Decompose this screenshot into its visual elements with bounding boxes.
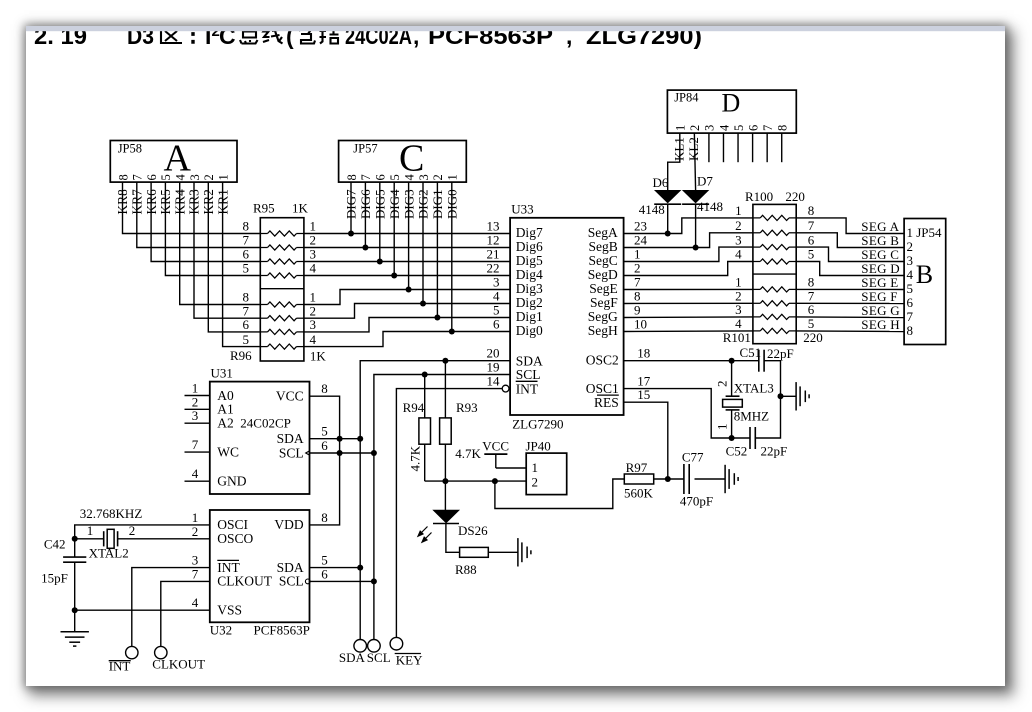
wire VSS to ground bbox=[74, 610, 76, 632]
terminal INT circle bbox=[126, 646, 138, 658]
wire SegD to R100 bbox=[624, 262, 753, 276]
wire U33 INT to KEY terminal bbox=[396, 389, 502, 638]
svg-text:4: 4 bbox=[735, 316, 742, 331]
JP57 net labels DIG7..DIG0 bbox=[344, 189, 460, 219]
svg-text:1: 1 bbox=[735, 275, 742, 290]
svg-text:4.7K: 4.7K bbox=[455, 446, 481, 461]
svg-text:1K: 1K bbox=[292, 201, 309, 216]
resistor R100 element 1 bbox=[735, 203, 814, 220]
IC U31 24C02CP body bbox=[210, 366, 310, 495]
svg-text:A0: A0 bbox=[217, 388, 234, 403]
terminal SDA circle bbox=[354, 640, 367, 653]
junction DIG7 bbox=[348, 231, 354, 237]
svg-text:SCL: SCL bbox=[516, 367, 541, 382]
junction ground tap bbox=[778, 393, 784, 399]
svg-text:32.768KHZ: 32.768KHZ bbox=[80, 506, 143, 521]
wire Dig1 net bbox=[304, 318, 510, 332]
svg-text:SegB: SegB bbox=[589, 239, 618, 254]
svg-text:R100: R100 bbox=[745, 189, 773, 204]
svg-text:Dig5: Dig5 bbox=[516, 253, 543, 268]
JP58 pin numbers 8..1 bbox=[116, 174, 230, 181]
svg-text:U32: U32 bbox=[210, 622, 232, 637]
svg-text:220: 220 bbox=[785, 189, 805, 204]
junction OSC1-XTAL3 bbox=[729, 435, 735, 441]
svg-text:RES: RES bbox=[594, 395, 619, 410]
wire to ground right bbox=[781, 395, 797, 397]
svg-text:SCL: SCL bbox=[367, 650, 391, 665]
wire KR4 bbox=[180, 182, 261, 304]
svg-text:5: 5 bbox=[493, 303, 500, 318]
svg-text:7: 7 bbox=[634, 275, 641, 290]
svg-text:2: 2 bbox=[907, 239, 914, 254]
JP84 pin numbers 1..8 bbox=[674, 124, 790, 131]
svg-text:1: 1 bbox=[735, 203, 742, 218]
resistor R100 element 3 bbox=[735, 232, 815, 249]
svg-text:14: 14 bbox=[487, 374, 501, 389]
svg-text:SegF: SegF bbox=[590, 295, 618, 310]
svg-text:1: 1 bbox=[87, 523, 94, 538]
wire D6 to SegA net bbox=[667, 204, 669, 234]
svg-text:8: 8 bbox=[634, 289, 641, 304]
wire Dig5 net bbox=[304, 261, 510, 263]
svg-text:8: 8 bbox=[321, 510, 328, 525]
svg-text:A1: A1 bbox=[217, 402, 234, 417]
svg-text:5: 5 bbox=[388, 174, 402, 180]
svg-text:7: 7 bbox=[907, 309, 914, 324]
U33 right pin numbers bbox=[634, 219, 651, 403]
title text 2.19 D3 I2C bus bbox=[34, 23, 702, 49]
ground at C42 bbox=[61, 632, 89, 646]
capacitor C51 22pF bbox=[740, 345, 794, 372]
svg-text:U31: U31 bbox=[211, 366, 233, 381]
junction OSC2-XTAL3 bbox=[729, 358, 735, 364]
resistor network R95/R96 box bbox=[230, 201, 326, 364]
svg-text:2: 2 bbox=[735, 218, 742, 233]
svg-text:1: 1 bbox=[310, 219, 317, 234]
junction node-R97 branch bbox=[492, 478, 498, 484]
svg-text:SegA: SegA bbox=[588, 225, 618, 240]
junction U32 SCL bus bbox=[371, 578, 377, 584]
svg-text:22pF: 22pF bbox=[761, 443, 788, 458]
junction DIG2 bbox=[420, 301, 426, 307]
svg-text:12: 12 bbox=[487, 233, 500, 248]
svg-text:4: 4 bbox=[192, 466, 199, 481]
page top edge strip bbox=[26, 26, 1005, 31]
svg-text:VCC: VCC bbox=[276, 389, 304, 404]
svg-text:5: 5 bbox=[907, 281, 914, 296]
wire R100 to SEGA JP54 bbox=[796, 218, 904, 234]
svg-text:D7: D7 bbox=[697, 174, 713, 189]
svg-text:4: 4 bbox=[192, 595, 199, 610]
svg-text:7: 7 bbox=[192, 566, 199, 581]
svg-text:5: 5 bbox=[808, 316, 815, 331]
wire R101 to SEGF JP54 bbox=[796, 302, 904, 304]
JP84 pin stub wires bbox=[709, 133, 782, 162]
wire U32 SDA bbox=[310, 567, 361, 569]
svg-text:OSCI: OSCI bbox=[217, 517, 248, 532]
wire U33 RES to R97 node bbox=[624, 402, 668, 479]
svg-text:10: 10 bbox=[634, 317, 647, 332]
svg-text:6: 6 bbox=[808, 302, 815, 317]
svg-text:6: 6 bbox=[808, 232, 815, 247]
diode D7 4148 bbox=[682, 174, 723, 215]
svg-text:8: 8 bbox=[907, 323, 914, 338]
svg-text:4: 4 bbox=[717, 124, 731, 131]
capacitor C77 470pF bbox=[680, 450, 713, 509]
crystal XTAL3 8MHZ bbox=[715, 361, 774, 438]
svg-text:9: 9 bbox=[634, 303, 641, 318]
svg-text:5: 5 bbox=[243, 332, 250, 347]
crystal XTAL2 32.768KHZ bbox=[75, 506, 210, 561]
title CJK glyphs (drawn) bbox=[161, 27, 339, 44]
resistor R101 element 3 bbox=[735, 302, 815, 319]
svg-text:D6: D6 bbox=[653, 175, 669, 190]
ground at XTAL3 bbox=[796, 382, 809, 410]
svg-text:SDA: SDA bbox=[277, 560, 304, 575]
wire DIG5 bbox=[379, 182, 381, 261]
label INT bbox=[109, 659, 131, 674]
svg-text:3: 3 bbox=[192, 408, 199, 423]
svg-text:6: 6 bbox=[321, 438, 328, 453]
svg-text:B: B bbox=[916, 260, 933, 289]
wire R101 to SEGH JP54 bbox=[796, 330, 904, 333]
IC U33 ZLG7290 body bbox=[510, 202, 623, 432]
svg-text:6: 6 bbox=[746, 125, 760, 131]
wire R101 to SEGE JP54 bbox=[796, 288, 904, 290]
svg-text:4: 4 bbox=[907, 267, 914, 282]
JP58 net labels KR8..KR1 bbox=[115, 189, 230, 215]
svg-text:A2: A2 bbox=[217, 416, 234, 431]
IC U32 PCF8563P body bbox=[210, 510, 310, 637]
wire Dig4 net bbox=[304, 275, 510, 277]
connector JP58 (A) bbox=[110, 138, 237, 183]
svg-text:SEG G: SEG G bbox=[861, 303, 900, 318]
junction DIG3 bbox=[406, 287, 412, 293]
svg-text:SegD: SegD bbox=[588, 267, 618, 282]
resistor R95 element 2 bbox=[243, 233, 317, 250]
svg-text:3: 3 bbox=[192, 553, 199, 568]
svg-text:D: D bbox=[722, 89, 741, 118]
junction DIG0 bbox=[449, 329, 455, 335]
svg-text:XTAL3: XTAL3 bbox=[734, 381, 774, 396]
svg-text:Dig2: Dig2 bbox=[516, 295, 543, 310]
junction DIG1 bbox=[434, 315, 440, 321]
svg-text:1K: 1K bbox=[310, 349, 327, 364]
svg-text:R95: R95 bbox=[253, 201, 275, 216]
svg-text:1: 1 bbox=[192, 381, 199, 396]
svg-text:Dig0: Dig0 bbox=[516, 323, 543, 338]
resistor R101 element 2 bbox=[735, 289, 815, 306]
VCC power symbol bbox=[482, 438, 509, 468]
U31 left stub wires bbox=[185, 396, 210, 482]
svg-text:8: 8 bbox=[243, 219, 250, 234]
resistor R96 element 2 bbox=[243, 303, 317, 320]
wire SegG to R101 bbox=[624, 316, 753, 319]
svg-text:6: 6 bbox=[321, 566, 328, 581]
resistor R101 element 4 bbox=[735, 316, 814, 333]
wire SegA to R100 bbox=[624, 218, 753, 234]
svg-text:SEG H: SEG H bbox=[861, 317, 900, 332]
wire C51 right down to C52 bbox=[755, 361, 780, 438]
wire C77 to ground bbox=[695, 478, 726, 480]
svg-text:1: 1 bbox=[216, 174, 230, 180]
U31 pin names bbox=[217, 388, 304, 489]
wire R100 to SEGC JP54 bbox=[796, 247, 904, 261]
resistor R93 4.7K bbox=[440, 361, 482, 461]
svg-text:JP40: JP40 bbox=[526, 438, 551, 453]
svg-text:PCF8563P: PCF8563P bbox=[254, 622, 310, 637]
junction D6-SegA bbox=[665, 231, 671, 237]
wire key node row bbox=[425, 480, 527, 482]
wire R101 to SEGG JP54 bbox=[796, 316, 904, 319]
svg-text:C77: C77 bbox=[682, 450, 704, 465]
junction DIG5 bbox=[377, 259, 383, 265]
resistor R97 560K bbox=[624, 460, 654, 501]
wire R88 to ground bbox=[488, 551, 518, 553]
svg-text:KL1: KL1 bbox=[671, 137, 686, 161]
wire DIG0 bbox=[451, 182, 453, 331]
junction DIG4 bbox=[391, 273, 397, 279]
svg-text:Dig7: Dig7 bbox=[516, 225, 543, 240]
svg-text:JP57: JP57 bbox=[353, 142, 377, 156]
wire KL2 to D7 bbox=[694, 133, 695, 190]
svg-text:8: 8 bbox=[321, 381, 328, 396]
svg-text:SDA: SDA bbox=[277, 431, 304, 446]
svg-text:8: 8 bbox=[808, 275, 815, 290]
svg-text:8: 8 bbox=[116, 174, 130, 180]
junction U32 SDA bus bbox=[357, 565, 363, 571]
wire U33 OSC2 to C51/XTAL3 bbox=[624, 360, 759, 362]
svg-text:WC: WC bbox=[217, 444, 239, 459]
svg-text:24: 24 bbox=[634, 233, 648, 248]
svg-text:7: 7 bbox=[761, 125, 775, 131]
resistor network R100/R101 box bbox=[723, 189, 823, 345]
svg-text:R101: R101 bbox=[723, 330, 751, 345]
wire KR8 bbox=[123, 182, 261, 233]
wire U31 VCC to U32 VDD bbox=[310, 396, 340, 525]
junction U31 SDA crossing bbox=[337, 436, 343, 442]
svg-text:ZLG7290: ZLG7290 bbox=[512, 417, 563, 432]
svg-text:8: 8 bbox=[808, 203, 815, 218]
wire KR1 bbox=[223, 182, 261, 347]
wire SegF to R101 bbox=[624, 302, 753, 304]
svg-text:3: 3 bbox=[310, 317, 317, 332]
svg-text:VDD: VDD bbox=[274, 517, 303, 532]
svg-text:2: 2 bbox=[431, 174, 445, 180]
svg-text:R88: R88 bbox=[455, 562, 477, 577]
svg-text:13: 13 bbox=[487, 219, 500, 234]
svg-text:1: 1 bbox=[715, 424, 730, 431]
svg-text:C: C bbox=[399, 138, 424, 180]
resistor R100 element 4 bbox=[735, 247, 814, 264]
U32 pin names bbox=[217, 517, 304, 617]
svg-text:220: 220 bbox=[803, 330, 823, 345]
svg-text:22pF: 22pF bbox=[767, 346, 794, 361]
svg-text:SEG A: SEG A bbox=[861, 219, 899, 234]
resistor R95 element 4 bbox=[243, 261, 317, 278]
svg-text:22: 22 bbox=[487, 261, 500, 276]
svg-text:21: 21 bbox=[487, 247, 500, 262]
svg-text:5: 5 bbox=[243, 261, 250, 276]
svg-text:15pF: 15pF bbox=[41, 570, 68, 585]
wire Dig3 net bbox=[304, 290, 510, 305]
resistor R101 element 1 bbox=[735, 275, 814, 292]
terminal SCL circle bbox=[368, 640, 381, 653]
svg-text:3: 3 bbox=[735, 302, 742, 317]
resistor R95 element 3 bbox=[243, 247, 317, 264]
resistor R88 bbox=[455, 547, 488, 577]
label KEY bbox=[395, 653, 423, 668]
svg-text:3: 3 bbox=[907, 253, 914, 268]
svg-text:VCC: VCC bbox=[482, 438, 509, 453]
svg-text:SCL: SCL bbox=[279, 445, 304, 460]
svg-text:560K: 560K bbox=[624, 486, 654, 501]
U32 pin numbers bbox=[192, 510, 328, 610]
svg-text:5: 5 bbox=[321, 553, 328, 568]
svg-text:6: 6 bbox=[243, 247, 250, 262]
svg-text:OSC1: OSC1 bbox=[586, 381, 619, 396]
junction DIG6 bbox=[362, 245, 368, 251]
svg-text:2: 2 bbox=[532, 474, 539, 489]
LED arrows bbox=[418, 527, 432, 543]
wire SegE to R101 bbox=[624, 288, 753, 290]
wire Dig7 net bbox=[304, 233, 510, 235]
svg-text:2: 2 bbox=[192, 394, 199, 409]
svg-text:JP58: JP58 bbox=[118, 142, 142, 156]
svg-text:4: 4 bbox=[310, 261, 317, 276]
connector JP57 (C) bbox=[339, 138, 467, 183]
svg-text:SDA: SDA bbox=[516, 353, 543, 368]
svg-text:Dig1: Dig1 bbox=[516, 309, 543, 324]
svg-text:8MHZ: 8MHZ bbox=[734, 409, 769, 424]
svg-text:GND: GND bbox=[217, 474, 246, 489]
svg-text:6: 6 bbox=[145, 174, 159, 180]
svg-text:C52: C52 bbox=[726, 443, 748, 458]
svg-text:23: 23 bbox=[634, 219, 647, 234]
svg-text:2: 2 bbox=[634, 261, 641, 276]
svg-text:5: 5 bbox=[808, 247, 815, 262]
wire KR5 bbox=[165, 182, 260, 275]
JP84 net labels KL1 KL2 bbox=[671, 137, 701, 161]
svg-text:Dig4: Dig4 bbox=[516, 267, 543, 282]
wire U32 CLKOUT to terminal bbox=[161, 581, 210, 646]
svg-text:1: 1 bbox=[446, 174, 460, 180]
svg-text:A: A bbox=[164, 138, 192, 180]
svg-text:SDA: SDA bbox=[339, 650, 366, 665]
resistor R95 element 1 bbox=[243, 219, 317, 236]
svg-text:SEG B: SEG B bbox=[861, 233, 899, 248]
svg-text:R93: R93 bbox=[456, 400, 478, 415]
svg-text:4: 4 bbox=[402, 174, 416, 181]
ground at C77 bbox=[725, 465, 738, 493]
junction U31 SCL crossing bbox=[337, 450, 343, 456]
svg-text:1: 1 bbox=[674, 125, 688, 131]
svg-text:SegH: SegH bbox=[588, 323, 618, 338]
junction VSS-C42 bbox=[72, 607, 78, 613]
wire KR7 bbox=[137, 182, 260, 247]
wire D7 to SegB net bbox=[695, 204, 697, 248]
svg-text:2: 2 bbox=[688, 125, 702, 131]
junction R93-SDA bbox=[442, 358, 448, 364]
svg-text:Dig6: Dig6 bbox=[516, 239, 543, 254]
junction node-R93 bbox=[442, 478, 448, 484]
wire SegC to R100 bbox=[624, 247, 753, 261]
junction U31 SDA bus bbox=[357, 436, 363, 442]
wire U32 VSS bbox=[75, 609, 210, 611]
svg-text:4: 4 bbox=[174, 174, 188, 181]
svg-text:3: 3 bbox=[735, 232, 742, 247]
svg-text:19: 19 bbox=[487, 360, 500, 375]
svg-text:8: 8 bbox=[776, 125, 790, 131]
svg-text:5: 5 bbox=[732, 125, 746, 131]
svg-text:7: 7 bbox=[192, 437, 199, 452]
wire Dig6 net bbox=[304, 247, 510, 249]
svg-text:SEG D: SEG D bbox=[861, 261, 900, 276]
wire R100 to SEGB JP54 bbox=[796, 233, 904, 248]
wire DIG2 bbox=[422, 182, 424, 303]
svg-text:7: 7 bbox=[808, 218, 815, 233]
svg-text:R97: R97 bbox=[626, 460, 648, 475]
junction D7-SegB bbox=[693, 245, 699, 251]
svg-text:6: 6 bbox=[243, 317, 250, 332]
svg-text:XTAL2: XTAL2 bbox=[89, 546, 129, 561]
svg-text:7: 7 bbox=[131, 174, 145, 180]
svg-text:470pF: 470pF bbox=[680, 494, 713, 509]
svg-text:4148: 4148 bbox=[697, 199, 723, 214]
wire R100 to SEGD JP54 bbox=[796, 262, 904, 276]
wire DS26 to R88 bbox=[446, 524, 460, 553]
svg-text:SegC: SegC bbox=[589, 253, 618, 268]
svg-text:VSS: VSS bbox=[217, 603, 242, 618]
wire node to R97 bbox=[495, 479, 624, 509]
svg-text:7: 7 bbox=[359, 174, 373, 180]
wire U31 SDA bbox=[310, 438, 361, 440]
svg-text:3: 3 bbox=[703, 125, 717, 131]
svg-text:R96: R96 bbox=[230, 348, 252, 363]
wire KL1 to D6 bbox=[668, 133, 680, 190]
svg-text:1: 1 bbox=[532, 460, 539, 475]
ground at R88 bbox=[518, 538, 531, 566]
wire KR6 bbox=[151, 182, 260, 261]
svg-text:C51: C51 bbox=[740, 345, 762, 360]
wire SegH to R101 bbox=[624, 330, 753, 333]
svg-text:20: 20 bbox=[487, 346, 500, 361]
svg-text:INT: INT bbox=[516, 381, 539, 396]
wire U32 SCL bbox=[310, 580, 374, 582]
wire R93 bottom to node row bbox=[444, 444, 446, 481]
svg-text:7: 7 bbox=[243, 233, 250, 248]
wire DIG4 bbox=[393, 182, 395, 275]
junction U31 SCL bus bbox=[371, 450, 377, 456]
resistor R94 4.7K bbox=[403, 375, 431, 472]
svg-text:SEG C: SEG C bbox=[861, 247, 899, 262]
wire R97 to C77 bbox=[654, 478, 684, 480]
svg-text:SEG E: SEG E bbox=[861, 275, 898, 290]
U32 SCL bubble bbox=[305, 579, 310, 584]
svg-text:5: 5 bbox=[321, 424, 328, 439]
connector JP54 (B) bbox=[904, 219, 946, 345]
svg-text:1: 1 bbox=[634, 247, 641, 262]
svg-text:6: 6 bbox=[374, 174, 388, 180]
resistor R96 element 4 bbox=[243, 332, 317, 349]
connector JP40 bbox=[526, 438, 567, 494]
wire U33 SCL to bus bbox=[374, 375, 510, 640]
capacitor C52 22pF bbox=[726, 427, 788, 458]
svg-text:3: 3 bbox=[493, 275, 500, 290]
wire U33 SDA to bus bbox=[360, 361, 510, 640]
svg-text:4.7K: 4.7K bbox=[408, 445, 423, 471]
svg-text:SCL: SCL bbox=[279, 574, 304, 589]
